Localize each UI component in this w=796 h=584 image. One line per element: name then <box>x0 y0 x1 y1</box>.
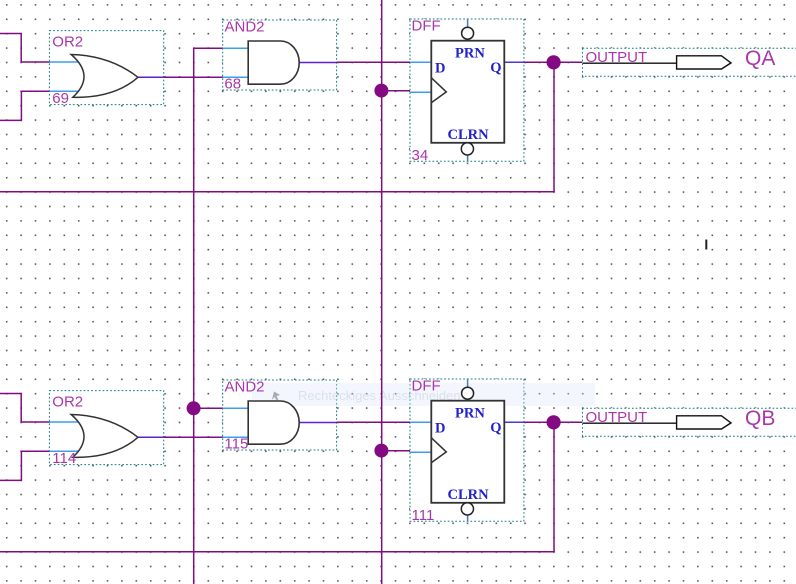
svg-text:111: 111 <box>412 507 435 524</box>
wire feedback horizontal H1 <box>0 191 555 193</box>
selection box AND2 A <box>223 20 337 90</box>
wire feedback horizontal H2 <box>0 551 555 553</box>
wire V2 vertical clock line <box>381 0 383 584</box>
svg-text:115: 115 <box>224 436 248 453</box>
svg-text:CLRN: CLRN <box>448 127 490 143</box>
wire DFFB Q to OUTPUT <box>524 421 583 423</box>
junction dot QA node <box>547 55 561 69</box>
svg-text:PRN: PRN <box>455 405 485 421</box>
and-gate AND2 inst 68 <box>223 19 337 93</box>
svg-text:68: 68 <box>224 76 241 93</box>
junction dot V2 clock A <box>374 84 388 98</box>
wire clock branch from V2 to DFFA <box>382 90 410 92</box>
wire input B2 <box>0 451 49 480</box>
svg-text:OR2: OR2 <box>52 394 83 411</box>
selection box OUTPUT B <box>583 408 796 436</box>
svg-text:QB: QB <box>745 407 775 430</box>
selection box DFF A <box>410 19 524 161</box>
and-gate AND2 inst 115 <box>223 379 337 453</box>
svg-text:69: 69 <box>52 90 69 107</box>
wire AND2A output to DFFA D <box>337 61 411 63</box>
svg-text:Q: Q <box>490 60 501 76</box>
selection box AND2 B <box>223 380 337 450</box>
wire OR2B output to AND2B input <box>164 436 223 438</box>
svg-text:DFF: DFF <box>412 378 441 395</box>
wire DFFA Q to OUTPUT <box>524 61 583 63</box>
junction dot V1 to AND2B <box>187 401 201 415</box>
selection box OR2 A <box>49 31 163 105</box>
svg-text:D: D <box>435 420 445 436</box>
dff DFF inst 34 <box>410 18 524 165</box>
svg-text:PRN: PRN <box>455 45 485 61</box>
svg-text:114: 114 <box>52 450 76 467</box>
or-gate OR2 inst 69 <box>49 34 163 107</box>
wire input A1 <box>0 34 49 63</box>
watermark band Rechteckiges Ausschneiden <box>252 383 595 406</box>
wire input A2 <box>0 91 49 120</box>
output pin OUTPUT QB <box>583 407 775 430</box>
svg-text:34: 34 <box>412 147 429 164</box>
selection box DFF B <box>410 379 524 521</box>
svg-text:CLRN: CLRN <box>448 487 490 503</box>
wire input B1 <box>0 394 49 423</box>
selection box OUTPUT A <box>583 48 796 76</box>
dff DFF inst 111 <box>410 378 524 525</box>
svg-text:D: D <box>435 60 445 76</box>
svg-text:OR2: OR2 <box>52 34 83 51</box>
junction dot V2 clock B <box>374 444 388 458</box>
wire OR2A output to AND2A input <box>164 76 223 78</box>
wire clock branch from V2 to DFFB <box>382 450 410 452</box>
svg-text:AND2: AND2 <box>225 19 265 36</box>
wire AND2B output to DFFB D <box>337 421 411 423</box>
junction dot QB node <box>547 415 561 429</box>
wire QA feedback down <box>553 62 555 192</box>
wire V1 branch to AND2B input <box>194 407 223 409</box>
wire V1 vertical from AND2A input corner down <box>194 48 223 584</box>
svg-text:Q: Q <box>490 420 501 436</box>
selection box OR2 B <box>49 391 163 465</box>
wire QB feedback down <box>553 422 555 552</box>
svg-text:AND2: AND2 <box>225 379 265 396</box>
or-gate OR2 inst 114 <box>49 394 163 467</box>
text cursor mark <box>705 240 707 250</box>
svg-text:DFF: DFF <box>412 18 441 35</box>
output pin OUTPUT QA <box>583 47 775 70</box>
svg-text:QA: QA <box>745 47 775 70</box>
